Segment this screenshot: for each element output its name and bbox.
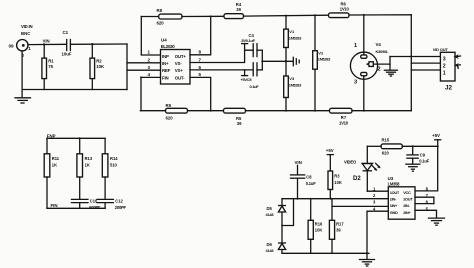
svg-text:FIN: FIN: [51, 203, 58, 208]
svg-text:R17: R17: [336, 221, 344, 226]
wire rail R8 to R4: [182, 15, 224, 17]
svg-text:VS-: VS-: [175, 61, 182, 66]
capacitor C4 0.1uF: [253, 44, 262, 57]
svg-text:R1: R1: [48, 58, 54, 63]
ground at V4: [384, 64, 397, 76]
svg-text:1K: 1K: [85, 162, 90, 167]
svg-text:U3: U3: [388, 176, 394, 181]
wire pin1 from feedback rail: [141, 17, 160, 56]
op-amp U3 LM358: [388, 176, 415, 219]
svg-text:V3: V3: [289, 76, 295, 81]
svg-text:2IN+: 2IN+: [403, 210, 411, 215]
ground mid rotated: [293, 57, 299, 65]
svg-text:10K: 10K: [96, 64, 105, 69]
svg-text:J2: J2: [445, 85, 453, 92]
J2 pin arrows: [454, 54, 461, 68]
svg-text:OUT-: OUT-: [175, 75, 185, 80]
resistor R17 39: [329, 199, 344, 254]
svg-text:1OUT: 1OUT: [390, 190, 400, 195]
svg-text:OUT+: OUT+: [175, 54, 187, 59]
svg-text:-5V0.1uF: -5V0.1uF: [241, 38, 256, 43]
wire FIN bottom rail: [47, 207, 105, 209]
pin numbers U3 right: [426, 186, 429, 211]
wire main video to bend: [71, 43, 127, 45]
wire +5V down to U3 pin8: [415, 146, 438, 191]
svg-text:0.1uF: 0.1uF: [250, 84, 260, 89]
wire ground rail input side: [22, 51, 127, 90]
wire main video input: [28, 43, 66, 45]
capacitor C10 500PF: [72, 199, 102, 210]
wire V4 pin2 out: [373, 57, 390, 65]
connector J1 BNC VID IN: [9, 24, 33, 58]
svg-text:2: 2: [443, 64, 446, 70]
pin numbers U3 left: [373, 186, 376, 211]
svg-text:200PF: 200PF: [115, 205, 127, 210]
wire U3 pin5 to ground: [415, 210, 437, 218]
svg-text:GND: GND: [390, 210, 398, 215]
wire clamp tap: [282, 199, 294, 226]
svg-text:0.1uF: 0.1uF: [306, 181, 316, 186]
resistor R7 1V10: [330, 108, 353, 125]
resistor R2 10K: [90, 43, 105, 90]
svg-text:VID OUT: VID OUT: [433, 47, 449, 52]
svg-text:R2: R2: [96, 58, 102, 63]
svg-text:R16: R16: [315, 221, 323, 226]
resistor R4 39: [224, 2, 244, 19]
svg-text:1IN-: 1IN-: [390, 196, 397, 201]
capacitor C1 10uF: [62, 30, 72, 57]
svg-text:C8: C8: [306, 175, 312, 180]
svg-text:D2: D2: [353, 176, 361, 182]
resistor R11 1K: [44, 138, 60, 208]
diode D5 4148: [266, 199, 286, 226]
svg-text:75: 75: [48, 64, 53, 69]
svg-text:VCC: VCC: [403, 190, 411, 195]
wire D2 to U3 pin1: [367, 190, 388, 192]
wire W2 to U3 pin2: [282, 198, 388, 200]
wire pin5 to bottom rail: [190, 77, 211, 110]
svg-text:R13: R13: [85, 156, 93, 161]
wire U3 pin4 to ground rail: [367, 211, 388, 253]
tube V4 K3090L: [350, 42, 389, 85]
svg-text:1N5283: 1N5283: [318, 56, 331, 61]
wire rail R9 to R5: [188, 110, 224, 112]
svg-text:39: 39: [236, 7, 241, 12]
svg-text:0.1uF: 0.1uF: [419, 159, 429, 164]
capacitor C9 0.1uF: [407, 146, 430, 164]
wire output bus vertical: [410, 15, 412, 111]
svg-text:10uF: 10uF: [62, 52, 72, 57]
svg-text:1: 1: [354, 43, 357, 49]
wire rail R5 to R7: [246, 110, 330, 112]
svg-text:R14: R14: [110, 156, 118, 161]
op-amp U4 EL2020: [161, 38, 191, 84]
svg-text:39: 39: [237, 121, 242, 126]
pin numbers U4 right: [199, 50, 202, 77]
svg-text:+5V: +5V: [326, 148, 334, 153]
svg-text:510: 510: [110, 162, 118, 167]
svg-text:R8: R8: [157, 8, 163, 13]
wire bus to J2 pin2: [411, 62, 440, 64]
resistor R13 1K: [77, 138, 93, 199]
wire V4 pin3 to bottom rail: [363, 76, 365, 111]
resistor R15 620: [381, 137, 402, 155]
resistor R5 39: [224, 108, 246, 126]
wire pin6 to C5: [190, 69, 253, 71]
svg-text:C12: C12: [115, 199, 123, 204]
wire bend into U4 pin2 pin3: [127, 44, 161, 90]
svg-text:500PF: 500PF: [89, 205, 101, 210]
svg-text:4148: 4148: [266, 212, 275, 217]
resistor R3 10K: [328, 171, 342, 199]
wire V4 pin1 to top rail: [363, 15, 365, 55]
power -5V tick: [241, 33, 256, 50]
wire pin8 to top rail: [190, 17, 211, 55]
resistor R14 510: [102, 138, 118, 199]
svg-text:2IN-: 2IN-: [403, 203, 410, 208]
svg-text:FIN: FIN: [162, 75, 168, 80]
LED D2: [353, 146, 381, 191]
ground input: [15, 90, 31, 104]
svg-text:10K: 10K: [334, 180, 342, 185]
svg-text:2OUT: 2OUT: [403, 196, 413, 201]
svg-text:VIN: VIN: [295, 160, 302, 165]
svg-text:+5VC5: +5VC5: [241, 77, 253, 82]
svg-text:1N5283: 1N5283: [289, 35, 302, 40]
svg-text:VID IN: VID IN: [21, 24, 33, 29]
capacitor C8 0.1uF: [291, 165, 317, 198]
svg-text:620: 620: [382, 150, 390, 155]
svg-text:LM358: LM358: [388, 182, 401, 187]
bottom ground rail lower section: [282, 252, 369, 254]
capacitor C5 0.1uF: [253, 63, 262, 76]
svg-text:1IN+: 1IN+: [390, 203, 398, 208]
power +5V tick lower: [241, 70, 260, 89]
svg-text:R5: R5: [236, 116, 242, 121]
svg-text:D5: D5: [267, 206, 273, 211]
svg-text:V1: V1: [289, 29, 295, 34]
svg-text:REF: REF: [162, 68, 171, 73]
resistor R8 620: [157, 8, 183, 25]
svg-text:VIN: VIN: [43, 38, 50, 43]
wire U3 pin7 pin6 follower: [415, 197, 434, 203]
wire +5V rail upper: [367, 145, 381, 147]
svg-text:R15: R15: [382, 137, 390, 142]
svg-text:K3090L: K3090L: [376, 49, 390, 54]
svg-text:R3: R3: [334, 174, 340, 179]
svg-text:V2: V2: [318, 50, 324, 55]
svg-text:INP: INP: [162, 54, 169, 59]
capacitor C12 200PF: [97, 199, 127, 210]
svg-text:R7: R7: [341, 115, 347, 120]
wire rail R4 to R6: [244, 14, 329, 17]
wire rail R6 to output bus: [349, 14, 411, 16]
wire bus to J2 pin1: [411, 69, 440, 71]
svg-text:R11: R11: [52, 156, 60, 161]
svg-text:U4: U4: [161, 38, 167, 43]
power +5V tick right: [432, 133, 441, 146]
current diode V1 1N5283: [284, 16, 302, 62]
connector J2 VID OUT: [433, 47, 455, 91]
wire pin4 to bottom rail: [141, 77, 161, 110]
svg-text:3: 3: [354, 80, 357, 86]
bottom rail left segment: [140, 110, 165, 112]
wire cap joint to mid node: [262, 50, 293, 70]
svg-text:10K: 10K: [315, 228, 323, 233]
svg-text:BNC: BNC: [21, 31, 30, 36]
wire rail R7 to output bus: [352, 110, 411, 112]
top feedback rail: [141, 16, 158, 18]
svg-text:39: 39: [336, 228, 341, 233]
svg-text:620: 620: [157, 20, 165, 25]
resistor R1 75: [42, 43, 54, 89]
svg-text:620: 620: [166, 115, 174, 120]
svg-text:V4: V4: [376, 42, 382, 47]
svg-text:IN+: IN+: [162, 61, 169, 66]
wire V4 to J2 pin3: [390, 56, 440, 58]
svg-text:C1: C1: [63, 30, 69, 35]
svg-text:1K: 1K: [52, 162, 57, 167]
ground lower section: [360, 253, 375, 266]
diode D6 4148: [266, 226, 286, 254]
pin numbers U4 left: [148, 50, 151, 77]
resistor R9 620: [166, 103, 188, 120]
svg-text:3: 3: [443, 56, 446, 62]
current diode V2 1N5283: [313, 15, 331, 110]
svg-text:R9: R9: [166, 103, 172, 108]
wire pin7 to C4: [190, 50, 253, 62]
svg-text:C9: C9: [420, 153, 426, 158]
wire FNP top rail: [47, 137, 105, 139]
svg-text:VIDEO: VIDEO: [344, 160, 357, 165]
svg-text:+5V: +5V: [432, 133, 440, 138]
svg-text:4148: 4148: [266, 248, 275, 253]
svg-text:09: 09: [9, 44, 15, 49]
ground at C9: [406, 164, 420, 171]
resistor R16 10K: [308, 199, 323, 254]
wire R15 to +5V corner: [402, 145, 437, 147]
svg-text:VS+: VS+: [175, 68, 183, 73]
svg-text:EL2020: EL2020: [161, 44, 175, 49]
ground at U3 pin5: [429, 218, 445, 225]
svg-text:1: 1: [443, 71, 446, 77]
resistor R6 1V10: [329, 2, 350, 18]
svg-text:2: 2: [378, 67, 381, 73]
current diode V3 1N5283: [284, 60, 302, 111]
svg-text:1N5283: 1N5283: [289, 82, 302, 87]
wire W3 to U3 pin3: [332, 205, 388, 207]
svg-text:1V10: 1V10: [340, 7, 350, 12]
svg-text:D6: D6: [267, 242, 273, 247]
power +5V tick above R3: [326, 148, 334, 171]
svg-text:1V10: 1V10: [339, 120, 349, 125]
svg-text:1: 1: [28, 46, 31, 51]
